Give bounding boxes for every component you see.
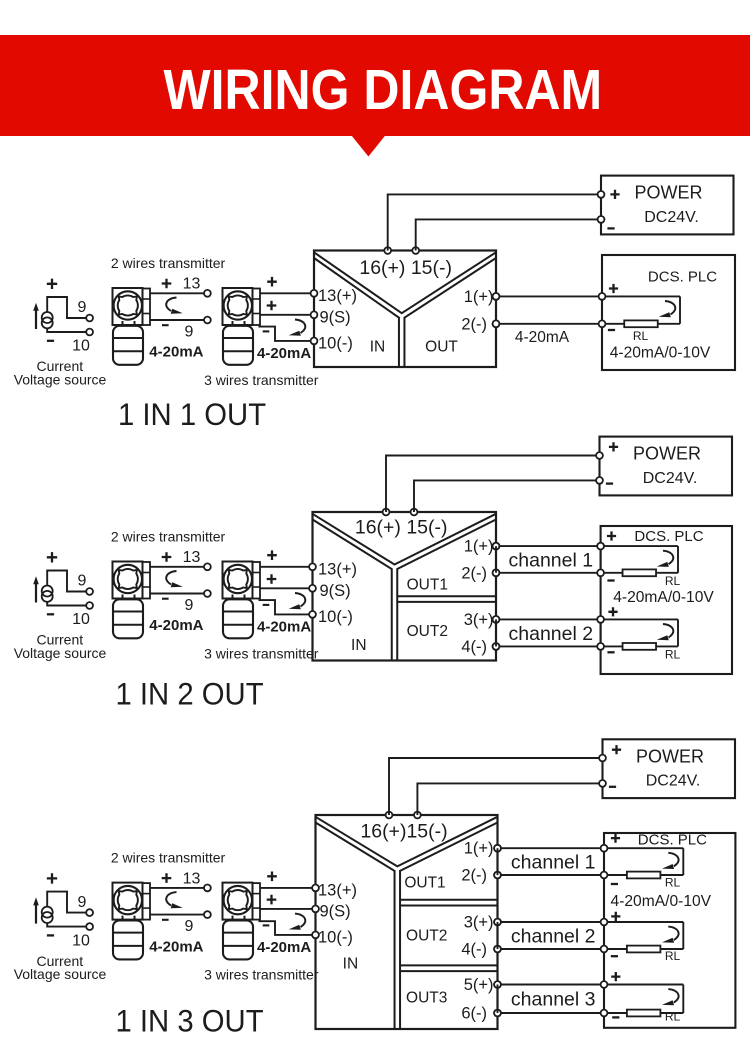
DCS S3 channel 3 plus label [611, 972, 620, 981]
3 wires transmitter S1 loop arrow [295, 320, 305, 334]
svg-text:OUT1: OUT1 [407, 577, 448, 594]
2 wires transmitter S1 minus label [162, 324, 169, 326]
svg-text:1 IN 2 OUT: 1 IN 2 OUT [116, 677, 264, 712]
3 wires transmitter S2 wire - (10) [259, 600, 310, 614]
3 wires transmitter S2 housing [223, 562, 253, 599]
svg-text:Voltage source: Voltage source [14, 966, 107, 982]
DCS S3 channel 1 minus label [611, 883, 618, 885]
current/voltage source S2 terminal 9 [86, 588, 93, 595]
svg-text:2 wires transmitter: 2 wires transmitter [111, 528, 226, 544]
wire S2 out 1+ to DCS [496, 545, 601, 547]
current/voltage source S2 plus label [47, 552, 57, 562]
svg-text:6(-): 6(-) [461, 1005, 487, 1023]
2 wires transmitter S3 minus label [162, 919, 169, 921]
resistor RL S2 channel 1 [623, 569, 657, 576]
DCS S3 channel 3 - terminal [601, 1010, 608, 1017]
DCS S2 channel 2 minus label [607, 651, 614, 653]
isolator S1 pin 15 terminal [412, 247, 419, 254]
2 wires transmitter S3 loop arrow [166, 892, 176, 906]
isolator S2 pin 15 terminal [411, 509, 418, 516]
2 wires transmitter S2 terminal strip [143, 562, 151, 599]
svg-text:2 wires transmitter: 2 wires transmitter [111, 255, 226, 271]
svg-text:10: 10 [72, 932, 90, 949]
DCS S2 channel 1 + wire [601, 545, 678, 547]
wire S1 out 1- to DCS [496, 323, 602, 325]
svg-text:POWER: POWER [634, 183, 702, 203]
current/voltage source S1 direction arrow [35, 309, 37, 329]
2 wires transmitter S3 housing [113, 883, 143, 920]
2 wires transmitter S1 housing [113, 288, 143, 325]
banner notch triangle [352, 136, 386, 157]
channel 1 box S2 [496, 546, 601, 573]
DCS S2 channel 1 - wire [601, 572, 678, 574]
svg-text:5(+): 5(+) [464, 976, 494, 994]
isolator S3 pin 5(+) terminal [494, 981, 501, 988]
DCS S1 channel 1 - wire [602, 323, 680, 325]
current/voltage source S1 wire top loop [47, 297, 86, 318]
isolator S2 pin 9(S) terminal [309, 585, 316, 592]
isolator S1 pin 1(+) terminal [493, 293, 500, 300]
resistor RL S3 channel 3 [627, 1010, 661, 1017]
current/voltage source S2 minus label [47, 613, 54, 615]
current/voltage source S1 terminal 10 [86, 329, 93, 336]
2 wires transmitter S1 body canister [113, 326, 143, 365]
svg-text:2(-): 2(-) [461, 564, 487, 582]
2 wires transmitter S1 terminal 9 [204, 317, 211, 324]
wire S3 out 1- to DCS [498, 874, 605, 876]
isolator S2 divider left lower [313, 520, 392, 661]
isolator S2 out 1 terminals [493, 543, 500, 550]
DCS S1 channel 1 + terminal [599, 293, 606, 300]
svg-text:3 wires transmitter: 3 wires transmitter [204, 645, 319, 661]
DCS PLC box S3 [604, 833, 735, 1028]
3 wires transmitter S3 gauge circle [224, 886, 252, 914]
current/voltage source S3 wire top loop [47, 892, 86, 913]
3 wires transmitter S2 wire + (13) [260, 566, 310, 568]
isolator S3 divider V upper [316, 817, 498, 867]
svg-text:9: 9 [78, 573, 87, 590]
3 wires transmitter S1 gauge circle [224, 291, 252, 319]
svg-text:RL: RL [665, 1010, 681, 1024]
2 wires transmitter S3 terminal 9 [204, 911, 211, 918]
DCS S2 channel 1 minus label [607, 579, 614, 581]
current/voltage source S3 wire bottom [47, 923, 86, 927]
3 wires transmitter S1 body canister [223, 326, 253, 365]
svg-text:RL: RL [665, 876, 681, 890]
svg-text:channel 2: channel 2 [511, 926, 596, 948]
isolator S3 pin 6(-) terminal [494, 1010, 501, 1017]
isolator S2 pin 4(-) terminal [493, 643, 500, 650]
3 wires transmitter S1 wire + (9S) [260, 314, 311, 316]
DCS S3 channel 1 - terminal [601, 872, 608, 879]
svg-text:9(S): 9(S) [320, 308, 351, 326]
svg-text:1(+): 1(+) [464, 288, 494, 306]
isolator S3 pin 16 terminal [386, 812, 393, 819]
svg-text:RL: RL [633, 329, 649, 343]
DCS S2 channel 2 + terminal [597, 616, 604, 623]
3 wires transmitter S2 plus top label [267, 550, 277, 560]
2 wires transmitter S3 gauge circle [114, 886, 142, 914]
svg-text:channel 3: channel 3 [511, 989, 596, 1011]
current/voltage source S3 minus label [47, 934, 54, 936]
2 wires transmitter S2 plus label [162, 552, 172, 562]
svg-text:13(+): 13(+) [318, 881, 357, 899]
svg-text:9: 9 [78, 299, 87, 316]
isolator S2 pin 1(+) terminal [493, 543, 500, 550]
svg-text:13(+): 13(+) [318, 560, 357, 578]
svg-text:DC24V.: DC24V. [643, 470, 698, 487]
channel 3 box S3 [498, 985, 605, 1014]
2 wires transmitter S2 gauge fan pattern [118, 569, 138, 589]
2 wires transmitter S3 terminal strip [143, 883, 151, 920]
3 wires transmitter S1 wire - (10) [259, 327, 312, 341]
channel 2 box S3 [498, 922, 605, 949]
current/voltage source S3 source circles [42, 907, 53, 918]
isolator S1 divider left lower [314, 258, 399, 367]
svg-text:9: 9 [78, 894, 87, 911]
svg-text:2 wires transmitter: 2 wires transmitter [111, 850, 226, 866]
svg-text:RL: RL [665, 949, 681, 963]
isolator S3 out 1 terminals [494, 845, 501, 852]
3 wires transmitter S3 housing [223, 883, 253, 920]
svg-text:OUT2: OUT2 [406, 928, 447, 945]
DCS S3 channel 2 - wire [604, 948, 683, 950]
wire S3 power + to pin 16 [389, 758, 603, 815]
3 wires transmitter S1 neck [233, 321, 245, 326]
current/voltage source S1 terminal 9 [86, 315, 93, 322]
DCS S1 channel 1 + wire [602, 295, 680, 297]
current/voltage source S3 terminal 10 [86, 923, 93, 930]
POWER S2 + terminal [596, 452, 603, 459]
DCS S3 channel 3 loop arrow [668, 989, 678, 1003]
2 wires transmitter S2 wire + (13) [150, 566, 204, 568]
DCS S3 channel 3 + terminal [601, 981, 608, 988]
2 wires transmitter S2 terminal 13 [204, 563, 211, 570]
isolator S3 pin 1(+) terminal [494, 845, 501, 852]
svg-text:1 IN 3 OUT: 1 IN 3 OUT [116, 1004, 264, 1039]
isolator S1 pin 10(-) terminal [311, 338, 318, 345]
isolator S1 divider right lower [404, 258, 496, 367]
svg-text:POWER: POWER [633, 444, 701, 464]
isolator main block S3 [316, 815, 498, 1029]
isolator main block S2 [313, 512, 497, 661]
svg-text:DC24V.: DC24V. [644, 209, 699, 226]
isolator S3 pin 13(+) terminal [312, 885, 319, 892]
DCS S2 channel 2 - wire [601, 645, 678, 647]
isolator S3 OUT compartment divider [400, 899, 497, 901]
isolator S1 pin 16 terminal [384, 247, 391, 254]
DCS S3 channel 1 loop right wire [682, 848, 684, 875]
resistor RL S2 channel 2 [623, 643, 657, 650]
DCS S3 channel 1 - wire [604, 874, 683, 876]
2 wires transmitter S3 terminal 13 [204, 885, 211, 892]
svg-text:4(-): 4(-) [461, 638, 487, 656]
svg-text:1 IN 1 OUT: 1 IN 1 OUT [118, 397, 266, 432]
isolator S2 pin 13(+) terminal [309, 563, 316, 570]
current/voltage source S1 wire bottom [47, 328, 86, 332]
svg-text:9: 9 [185, 918, 194, 935]
svg-text:channel 1: channel 1 [511, 852, 596, 874]
DCS S2 channel 1 loop arrow [663, 551, 673, 565]
POWER supply box S3 [603, 739, 736, 798]
DCS S3 channel 3 minus label [612, 1016, 619, 1018]
svg-text:2(-): 2(-) [461, 867, 487, 885]
3 wires transmitter S3 wire + (9S) [260, 908, 313, 910]
wire S2 out 2+ to DCS [496, 618, 601, 620]
POWER S3 + terminal [599, 755, 606, 762]
svg-text:3 wires transmitter: 3 wires transmitter [204, 372, 319, 388]
svg-text:POWER: POWER [636, 746, 704, 766]
current/voltage source S1 source circles [42, 312, 53, 323]
DCS S1 channel 1 loop arrow [665, 301, 675, 315]
svg-text:4-20mA: 4-20mA [257, 939, 311, 956]
current/voltage source S1 minus label [47, 340, 54, 342]
svg-text:OUT1: OUT1 [404, 875, 445, 892]
svg-text:IN: IN [343, 956, 359, 973]
DCS S3 channel 1 + terminal [601, 845, 608, 852]
POWER S3 - terminal [599, 780, 606, 787]
DCS S3 channel 3 + wire [604, 984, 683, 986]
POWER supply box S1 [601, 176, 734, 235]
current/voltage source S2 terminal 10 [86, 602, 93, 609]
svg-text:4-20mA: 4-20mA [149, 344, 203, 361]
resistor RL S3 channel 1 [627, 872, 661, 879]
wire S3 power - to pin 15 [417, 783, 602, 815]
svg-text:4-20mA/0-10V: 4-20mA/0-10V [613, 589, 714, 606]
wire S3 out 1+ to DCS [498, 847, 605, 849]
svg-text:4-20mA: 4-20mA [149, 617, 203, 634]
svg-text:13: 13 [183, 276, 201, 293]
2 wires transmitter S1 terminal strip [143, 289, 151, 326]
svg-text:OUT: OUT [425, 338, 458, 355]
svg-text:OUT2: OUT2 [407, 623, 448, 640]
DCS PLC box S1 [602, 255, 735, 370]
svg-text:4(-): 4(-) [461, 941, 487, 959]
svg-text:channel 1: channel 1 [509, 549, 594, 571]
isolator S2 divider V upper [313, 514, 497, 565]
3 wires transmitter S2 terminal strip [253, 562, 261, 599]
DCS S3 channel 1 plus label [611, 834, 620, 843]
POWER S1 + terminal [598, 191, 605, 198]
3 wires transmitter S2 loop arrow [295, 593, 305, 607]
2 wires transmitter S1 wire - (9) [150, 319, 204, 321]
wire S1 out 1+ to DCS [496, 295, 602, 297]
DCS S2 channel 2 + wire [601, 618, 678, 620]
2 wires transmitter S1 loop arrow [166, 298, 176, 312]
DCS PLC box S2 [601, 526, 732, 674]
svg-text:1(+): 1(+) [464, 840, 494, 858]
svg-text:4-20mA/0-10V: 4-20mA/0-10V [611, 893, 712, 910]
svg-text:13: 13 [183, 870, 201, 887]
isolator S1 pin 13(+) terminal [311, 290, 318, 297]
current/voltage source S2 direction arrow [35, 582, 37, 602]
svg-text:Voltage source: Voltage source [14, 372, 107, 388]
2 wires transmitter S2 body canister [113, 599, 143, 638]
channel 1 box S3 [498, 848, 605, 875]
3 wires transmitter S2 body canister [223, 599, 253, 638]
2 wires transmitter S3 gauge fan pattern [118, 890, 138, 910]
3 wires transmitter S1 wire + (13) [260, 292, 311, 294]
3 wires transmitter S2 wire + (9S) [260, 587, 310, 589]
3 wires transmitter S1 plus top label [267, 277, 277, 287]
wire S2 power + to pin 16 [386, 456, 600, 513]
DCS S3 channel 2 minus label [611, 955, 618, 957]
svg-text:4-20mA: 4-20mA [257, 619, 311, 636]
POWER S3 plus label [612, 745, 621, 754]
isolator S2 pin 10(-) terminal [309, 611, 316, 618]
3 wires transmitter S1 minus label [263, 330, 270, 332]
current/voltage source S3 terminal 9 [86, 909, 93, 916]
DCS S1 channel 1 minus label [608, 329, 615, 331]
POWER S1 plus label [610, 190, 619, 199]
isolator S2 divider right lower [397, 520, 496, 661]
wire S3 out 2- to DCS [498, 948, 605, 950]
POWER S3 minus label [609, 786, 616, 788]
svg-text:16(+) 15(-): 16(+) 15(-) [355, 517, 448, 539]
isolator main block S1 [314, 251, 496, 368]
wire S2 power - to pin 15 [414, 480, 600, 512]
3 wires transmitter S2 gauge circle [224, 565, 252, 593]
3 wires transmitter S3 neck [233, 916, 245, 921]
svg-text:10: 10 [72, 338, 90, 355]
isolator S3 out 3 terminals [494, 981, 501, 988]
isolator S3 out 2 terminals [494, 919, 501, 926]
current/voltage source S2 source circles [42, 586, 53, 597]
2 wires transmitter S2 gauge circle [114, 565, 142, 593]
isolator S3 pin 4(-) terminal [494, 946, 501, 953]
DCS S3 channel 2 loop arrow [668, 927, 678, 941]
3 wires transmitter S3 plus mid label [267, 895, 277, 905]
2 wires transmitter S2 minus label [162, 598, 169, 600]
2 wires transmitter S3 body canister [113, 920, 143, 959]
svg-text:4-20mA: 4-20mA [149, 938, 203, 955]
svg-text:WIRING DIAGRAM: WIRING DIAGRAM [163, 59, 602, 122]
DCS S3 channel 2 loop right wire [682, 922, 684, 949]
DCS S3 channel 2 plus label [611, 912, 620, 921]
resistor RL S1 channel 1 [624, 320, 658, 327]
POWER S2 plus label [609, 442, 618, 451]
2 wires transmitter S3 neck [123, 916, 135, 921]
svg-text:RL: RL [665, 648, 681, 662]
DCS S1 channel 1 plus label [609, 284, 618, 293]
svg-text:IN: IN [351, 637, 367, 654]
3 wires transmitter S2 gauge fan pattern [228, 569, 248, 589]
DCS S3 channel 3 loop right wire [682, 985, 684, 1014]
svg-text:9: 9 [185, 597, 194, 614]
isolator S3 pin 2(-) terminal [494, 872, 501, 879]
DCS S3 channel 1 + wire [604, 847, 683, 849]
wire S3 out 2+ to DCS [498, 921, 605, 923]
POWER S1 - terminal [598, 216, 605, 223]
svg-text:channel 2: channel 2 [509, 623, 594, 645]
isolator S3 pin 3(+) terminal [494, 919, 501, 926]
svg-text:16(+) 15(-): 16(+) 15(-) [359, 257, 452, 279]
2 wires transmitter S1 terminal 13 [204, 290, 211, 297]
isolator S3 OUT compartment divider [400, 964, 497, 966]
isolator S3 pin 9(S) terminal [312, 906, 319, 913]
DCS S3 channel 2 + wire [604, 921, 683, 923]
isolator S2 pin 16 terminal [383, 509, 390, 516]
svg-text:10(-): 10(-) [318, 928, 353, 946]
3 wires transmitter S3 wire - (10) [259, 921, 313, 935]
current/voltage source S2 wire bottom [47, 602, 86, 606]
2 wires transmitter S2 wire - (9) [150, 593, 204, 595]
svg-text:OUT3: OUT3 [406, 990, 447, 1007]
svg-text:4-20mA: 4-20mA [515, 329, 570, 346]
3 wires transmitter S2 neck [233, 595, 245, 600]
svg-text:13(+): 13(+) [318, 287, 357, 305]
DCS S2 channel 1 + terminal [597, 543, 604, 550]
2 wires transmitter S3 plus label [162, 873, 172, 883]
wire S1 power - to pin 15 [416, 219, 601, 250]
2 wires transmitter S2 neck [123, 595, 135, 600]
isolator S3 pin 10(-) terminal [312, 932, 319, 939]
DCS S3 channel 1 loop arrow [668, 853, 678, 867]
wire S3 out 3+ to DCS [498, 984, 605, 986]
wire S2 out 1- to DCS [496, 572, 601, 574]
3 wires transmitter S2 plus mid label [267, 574, 277, 584]
isolator S2 pin 2(-) terminal [493, 569, 500, 576]
isolator S3 divider right lower [400, 823, 497, 1030]
isolator S1 divider V upper [314, 252, 496, 313]
DCS S2 channel 1 loop right wire [677, 546, 679, 573]
channel 2 box S2 [496, 619, 601, 646]
svg-text:DCS. PLC: DCS. PLC [638, 832, 707, 849]
3 wires transmitter S3 gauge fan pattern [228, 890, 248, 910]
DCS S1 channel 1 loop right wire [679, 296, 681, 323]
svg-text:10(-): 10(-) [318, 334, 353, 352]
isolator S1 pin 9(S) terminal [311, 311, 318, 318]
3 wires transmitter S3 minus label [263, 924, 270, 926]
svg-text:DCS. PLC: DCS. PLC [648, 268, 717, 285]
current/voltage source S2 wire top loop [47, 571, 86, 592]
DCS S3 channel 3 - wire [604, 1012, 683, 1014]
3 wires transmitter S1 terminal strip [253, 289, 261, 326]
3 wires transmitter S3 loop arrow [295, 914, 305, 928]
DCS S2 channel 2 plus label [608, 607, 617, 616]
svg-text:16(+)15(-): 16(+)15(-) [360, 820, 447, 842]
current/voltage source S3 plus label [47, 873, 57, 883]
isolator S1 pin 2(-) terminal [493, 320, 500, 327]
2 wires transmitter S2 terminal 9 [204, 590, 211, 597]
isolator S2 out 2 terminals [493, 616, 500, 623]
svg-text:RL: RL [665, 574, 681, 588]
3 wires transmitter S3 wire + (13) [260, 887, 313, 889]
3 wires transmitter S1 gauge fan pattern [228, 295, 248, 315]
DCS S2 channel 2 loop right wire [677, 619, 679, 646]
POWER supply box S2 [600, 437, 733, 496]
isolator S3 divider left lower [316, 823, 395, 1030]
svg-text:10(-): 10(-) [318, 608, 353, 626]
resistor RL S3 channel 2 [627, 946, 661, 953]
red banner [0, 35, 750, 136]
svg-text:1(+): 1(+) [464, 538, 494, 556]
DCS S1 channel 1 - terminal [599, 320, 606, 327]
DCS S3 channel 2 + terminal [601, 919, 608, 926]
2 wires transmitter S1 gauge circle [114, 291, 142, 319]
DCS S2 channel 2 - terminal [597, 643, 604, 650]
svg-text:9: 9 [185, 323, 194, 340]
svg-text:4-20mA/0-10V: 4-20mA/0-10V [610, 344, 711, 361]
3 wires transmitter S3 terminal strip [253, 883, 261, 920]
wire S2 out 2- to DCS [496, 645, 601, 647]
2 wires transmitter S2 housing [113, 562, 143, 599]
svg-text:3(+): 3(+) [464, 914, 494, 932]
wire S1 power + to pin 16 [388, 194, 601, 250]
2 wires transmitter S1 gauge fan pattern [118, 295, 138, 315]
3 wires transmitter S3 plus top label [267, 872, 277, 882]
svg-text:4-20mA: 4-20mA [257, 345, 311, 362]
